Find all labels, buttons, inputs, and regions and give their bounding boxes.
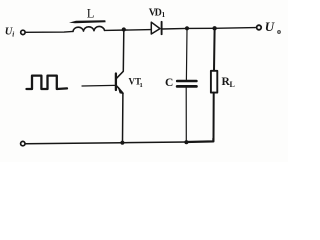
svg-text:L: L xyxy=(230,80,235,89)
svg-text:L: L xyxy=(87,7,95,21)
svg-text:U: U xyxy=(265,19,275,34)
svg-text:i: i xyxy=(12,30,14,38)
svg-text:C: C xyxy=(165,77,173,89)
svg-text:1: 1 xyxy=(140,82,143,89)
svg-text:1: 1 xyxy=(162,11,166,19)
svg-text:o: o xyxy=(277,27,281,36)
